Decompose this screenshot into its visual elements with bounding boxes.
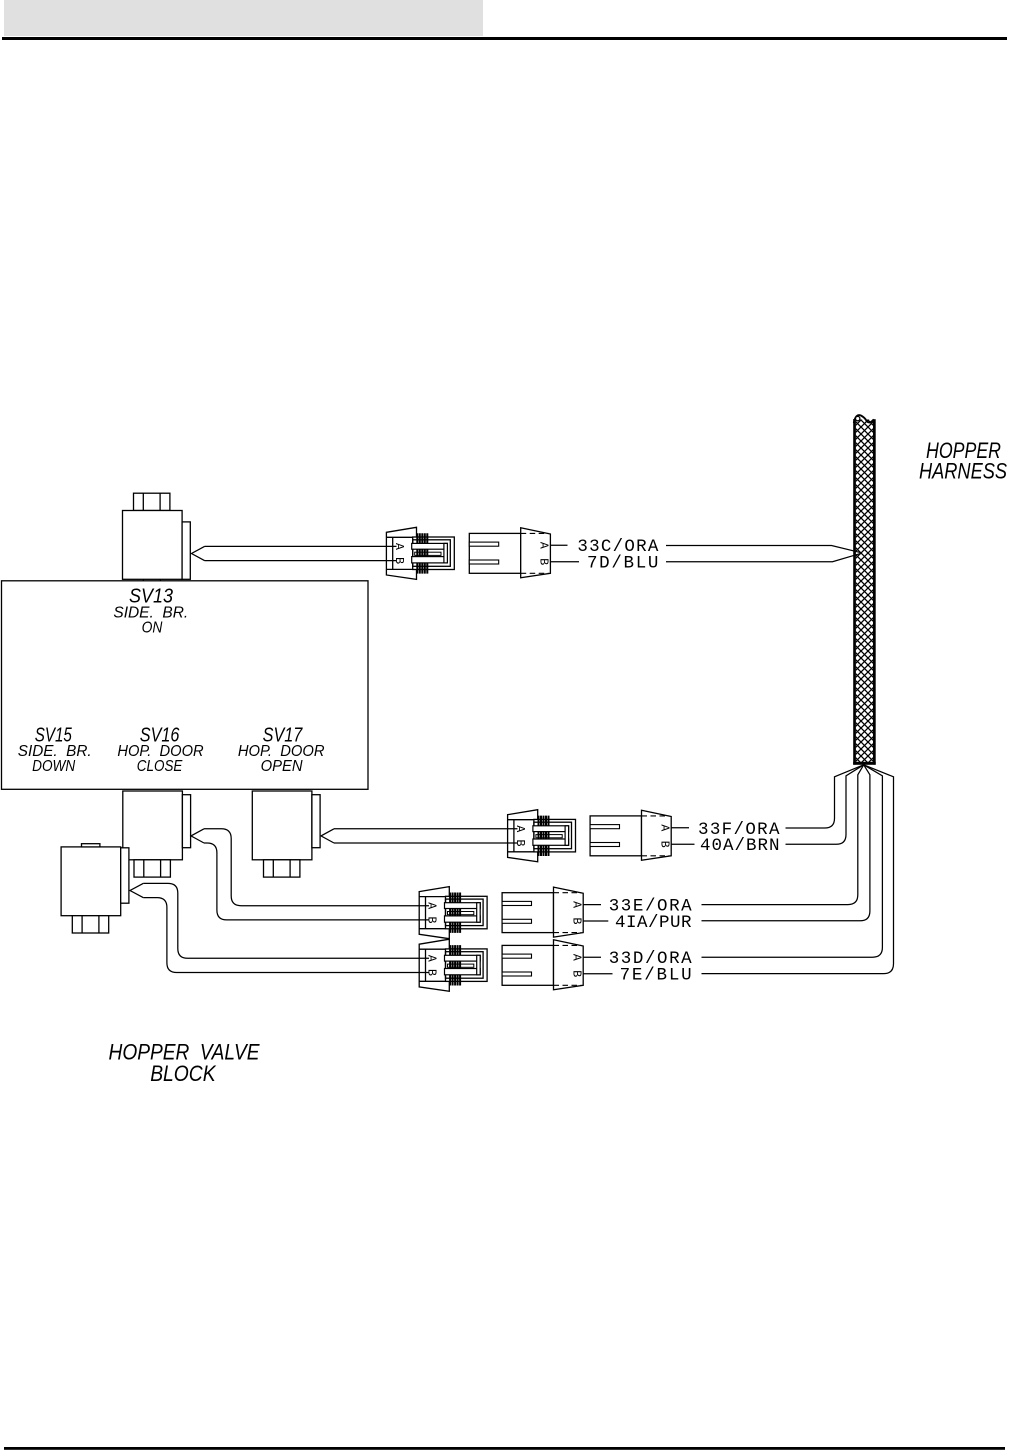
header gray bar — [4, 0, 483, 36]
wire arrow at SV16 — [191, 829, 204, 843]
top rule — [2, 37, 1007, 40]
solenoid valve SV16 — [123, 791, 191, 877]
connector plug row1 seal ribs — [417, 533, 427, 573]
wire 33F/ORA from harness — [786, 765, 864, 828]
wire 41A/PUR from harness — [702, 765, 870, 921]
wire arrow at SV15 — [130, 883, 143, 897]
connector receptacle row3 body — [502, 887, 583, 937]
hopper valve block outline — [2, 581, 369, 790]
wire stub pin A row1 — [550, 544, 567, 546]
connector plug row2 body — [508, 810, 576, 862]
wire SV13 pin A — [205, 545, 397, 547]
svg-text:7E/BLU: 7E/BLU — [620, 966, 694, 986]
svg-text:B: B — [658, 841, 671, 848]
wire SV16 pin B — [204, 843, 429, 920]
svg-text:BLOCK: BLOCK — [150, 1061, 216, 1086]
svg-text:ON: ON — [142, 620, 164, 637]
connector receptacle row1 body — [469, 528, 550, 578]
wire SV17 pin A — [334, 828, 518, 830]
solenoid valve SV15 — [61, 844, 129, 933]
svg-text:40A/BRN: 40A/BRN — [700, 836, 781, 856]
svg-text:A: A — [658, 824, 671, 831]
hopper harness braided sheath — [853, 415, 876, 765]
wire arrow at SV17 — [321, 829, 334, 843]
wire stub pin B row3 — [583, 920, 608, 922]
wire 33E/ORA from harness — [702, 765, 864, 905]
connector plug row3 body — [419, 887, 487, 939]
bottom rule — [4, 1447, 1005, 1450]
wire arrow at SV13 — [192, 546, 205, 560]
svg-text:B: B — [537, 558, 550, 565]
svg-text:4IA/PUR: 4IA/PUR — [615, 913, 693, 933]
wire 40A/BRN from harness — [786, 765, 864, 845]
wire SV15 pin B — [143, 898, 429, 973]
solenoid valve SV17 — [252, 791, 320, 877]
connector plug row2 terminals — [533, 826, 569, 846]
svg-text:CLOSE: CLOSE — [137, 758, 183, 775]
wire SV15 pin A — [143, 883, 429, 958]
svg-text:OPEN: OPEN — [261, 758, 304, 775]
svg-text:7D/BLU: 7D/BLU — [587, 553, 660, 573]
wire 33D/ORA from harness — [702, 765, 883, 957]
svg-text:A: A — [570, 954, 583, 961]
connector plug row4 seal ribs — [450, 945, 460, 985]
svg-text:A: A — [570, 901, 583, 908]
svg-text:DOWN: DOWN — [32, 758, 76, 775]
wire 33C/ORA to harness — [666, 546, 862, 553]
connector plug row1 terminals — [412, 543, 448, 563]
wire 7E/BLU from harness — [702, 765, 894, 974]
solenoid valve SV13 — [123, 493, 191, 579]
wire SV16 pin A — [204, 829, 429, 906]
wire SV13 pin B — [205, 560, 397, 562]
wire stub pin A row3 — [583, 904, 601, 906]
svg-text:B: B — [570, 918, 583, 925]
connector plug row2 seal ribs — [539, 816, 549, 856]
svg-text:HARNESS: HARNESS — [919, 459, 1007, 484]
connector receptacle row2 body — [590, 810, 671, 860]
connector plug row1 body — [386, 527, 454, 579]
wire SV17 pin B — [334, 842, 518, 844]
svg-text:B: B — [570, 970, 583, 977]
valve SV13 base lines — [143, 579, 160, 581]
connector plug row4 terminals — [445, 955, 481, 975]
wire stub pin B row2 — [671, 843, 694, 845]
wire stub pin A row2 — [671, 827, 689, 829]
connector plug row3 seal ribs — [450, 893, 460, 933]
wire stub pin B row1 — [550, 561, 579, 563]
wire stub pin B row4 — [583, 973, 612, 975]
connector receptacle row4 body — [502, 940, 583, 990]
connector plug row3 terminals — [445, 903, 481, 923]
connector plug row4 body — [419, 939, 487, 991]
wire stub pin A row4 — [583, 956, 601, 958]
svg-text:A: A — [537, 542, 550, 549]
wire 7D/BLU to harness — [666, 553, 862, 562]
